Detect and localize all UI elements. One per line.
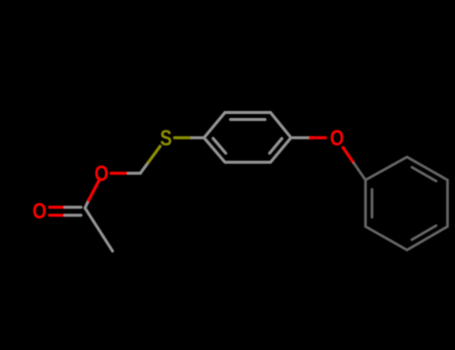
- benzene ring 2 (phenyl, lower right): [366, 157, 448, 250]
- bond O3-ring2 (red half near O3): [343, 148, 354, 164]
- ring1 inner double-bond line right-lower: [270, 139, 282, 154]
- bond O3-ring2 (gray half near ring2): [354, 163, 366, 180]
- ring1 inner double-bond line top: [231, 118, 266, 121]
- bond C1-CH3 methyl: [85, 208, 113, 251]
- bond C1=O1 double bond (gray half near C1): [65, 207, 81, 215]
- bond C3-S (gray half near C3): [141, 163, 149, 174]
- ring2 inner double-bond line lower-right: [412, 226, 436, 240]
- bond C1-O2 ester (gray half near C1): [85, 201, 89, 209]
- bond ring1-O3 (gray half near ring): [293, 136, 310, 139]
- ring2 inner double-bond line upper-right: [412, 167, 436, 181]
- bond S-ring1 (olive half near S): [175, 136, 193, 139]
- svg-text:O: O: [95, 161, 109, 186]
- bond O2-C3 (gray half near C3): [129, 172, 141, 175]
- bond C3-S (olive half near S): [148, 146, 160, 162]
- bond O2-C3 (red half near O2): [111, 172, 129, 175]
- bond S-ring1 (gray half near ring): [192, 136, 204, 139]
- svg-text:O: O: [33, 199, 47, 224]
- bond ring1-O3 (red half near O3): [310, 136, 326, 139]
- ring1 inner double-bond line left-lower: [213, 138, 226, 153]
- ring2 inner double-bond line left: [371, 189, 374, 217]
- benzene ring 1 (central, para-substituted): [204, 113, 291, 163]
- svg-text:O: O: [330, 125, 344, 150]
- bond C1-O2 ester (red half near O2): [89, 180, 100, 201]
- bond C1=O1 double bond (red half near O1): [50, 207, 66, 215]
- svg-text:S: S: [160, 126, 172, 151]
